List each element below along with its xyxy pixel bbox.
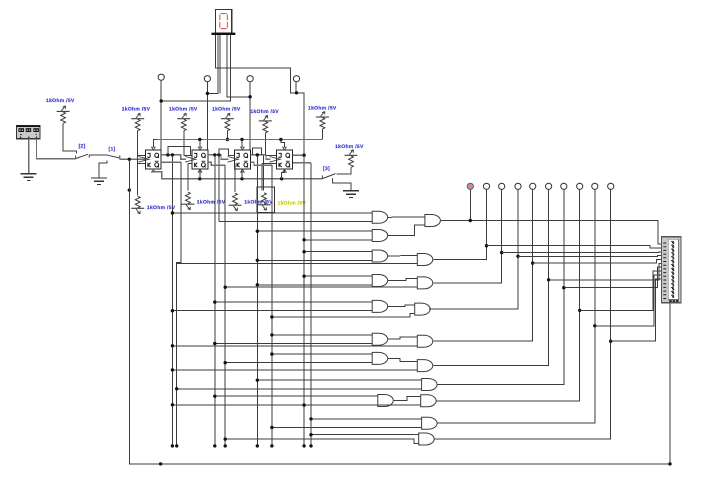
wire Q2 tap down to gate G1 input B	[218, 155, 220, 222]
junction bottom bus	[159, 462, 162, 465]
connector terminal T2	[247, 76, 253, 82]
pull-up resistor R6	[345, 150, 358, 168]
junction I input 1	[309, 417, 312, 420]
junction bus Q1bar end	[175, 444, 178, 447]
wire S2 to S1	[89, 154, 107, 156]
AND gate U15	[417, 254, 433, 266]
wire R1 to J1 K1	[137, 131, 139, 196]
junction G1 input A	[171, 211, 174, 214]
pull-up resistor R1	[131, 113, 144, 131]
probe terminal P1 active	[467, 183, 473, 189]
junction G7 input B	[224, 361, 227, 364]
junction C input 2	[224, 286, 227, 289]
junction J input 2 branch	[224, 437, 227, 440]
junction display tap a	[295, 91, 298, 94]
ground switch S3	[343, 191, 359, 198]
wire output i to display pin 9	[595, 275, 662, 326]
wire output g riser	[438, 189, 564, 384]
wire output c to display pin 3	[502, 251, 662, 254]
probe terminal P4	[515, 183, 521, 189]
wire H input 2	[304, 404, 421, 406]
wire S1 ground throw	[99, 160, 107, 178]
AND gate U23	[419, 433, 435, 445]
svg-text:1kOhm /5V: 1kOhm /5V	[335, 144, 364, 150]
wire output e to display pin 5	[533, 260, 662, 264]
junction P9	[593, 324, 596, 327]
junction bus Q4bar end	[309, 444, 312, 447]
JK flip-flop U4	[228, 147, 251, 172]
wire G6 input B	[215, 343, 372, 345]
AND gate U19	[417, 360, 433, 372]
wire vertical bus Q3bar	[271, 165, 273, 446]
switch S3	[322, 174, 335, 182]
wire display lead b to node Q2	[207, 35, 218, 93]
svg-text:1kOhm /5V: 1kOhm /5V	[278, 200, 307, 206]
wire display lead d to node Q3	[227, 35, 250, 97]
AND gate U11	[372, 333, 388, 345]
probe terminal P9	[592, 183, 598, 189]
junction bus Q3bar end	[270, 444, 273, 447]
junction Q2 bus	[213, 153, 216, 156]
junction G2 input B	[302, 238, 305, 241]
ground clock	[21, 174, 37, 181]
svg-text:1kOhm /5V: 1kOhm /5V	[308, 105, 337, 111]
svg-text:1kOhm /5V: 1kOhm /5V	[46, 98, 75, 104]
wire G3 input B	[257, 259, 372, 261]
wire J input 1	[311, 434, 419, 436]
wire display lead a to node Q4	[216, 35, 297, 93]
junction G8 input B	[171, 403, 174, 406]
wire display lead c	[219, 35, 221, 93]
pull-up resistor R5	[316, 111, 329, 129]
probe terminal P2	[483, 183, 489, 189]
svg-text:[2]: [2]	[79, 143, 86, 149]
junction display tap e	[160, 99, 163, 102]
wire G4 input A	[304, 275, 372, 277]
wire output b to display pin 2	[487, 246, 662, 248]
junction Q1 bus	[171, 153, 174, 156]
wire G2 input B	[304, 239, 372, 241]
junction clear rail FF4	[280, 177, 283, 180]
wire output a to display pin 1	[441, 221, 662, 245]
junction G2 input A	[256, 230, 259, 233]
svg-text:1kOhm /5V: 1kOhm /5V	[197, 199, 226, 205]
AND gate U10	[372, 300, 388, 312]
wire FF4 preset pin	[281, 140, 285, 151]
wire G8 input B	[172, 404, 377, 406]
wire G8 out to H in1	[394, 397, 421, 401]
junction P3	[500, 251, 503, 254]
junction P1	[469, 219, 472, 222]
wire R2 to J2	[184, 131, 192, 156]
wire Q2 to FF3 clock	[208, 155, 229, 159]
wire J4 tie to R10	[263, 155, 265, 190]
wire vertical bus Q2bar	[224, 165, 226, 446]
wire G4 input B	[257, 284, 372, 286]
junction display tap b	[206, 92, 209, 95]
wire F input 2	[172, 369, 417, 371]
wire FF1 preset pin	[153, 140, 161, 151]
wire output c riser	[433, 189, 501, 283]
junction G4 input B	[256, 283, 259, 286]
svg-text:1kOhm /5V: 1kOhm /5V	[169, 106, 198, 112]
wire I input 2	[272, 427, 422, 429]
wire G1 input A	[172, 212, 372, 214]
svg-text:1kOhm /5V: 1kOhm /5V	[122, 106, 151, 112]
wire FF2 clear pin	[199, 169, 201, 179]
wire vertical bus Q3	[256, 155, 258, 446]
probe terminal P3	[499, 183, 505, 189]
AND gate U22	[422, 417, 438, 429]
junction clear rail FF3	[240, 177, 243, 180]
svg-text:1kOhm /5V: 1kOhm /5V	[250, 109, 279, 115]
JK flip-flop U5	[270, 147, 293, 172]
wire Q4 out	[293, 154, 304, 156]
wire terminal P1 stem	[469, 189, 471, 220]
wire G5 out to D in1	[388, 305, 415, 307]
wire vertical bus Q1	[171, 155, 173, 446]
wire output h riser	[437, 189, 580, 400]
AND gate U21	[421, 395, 437, 407]
wire R0 to switch S2 throw	[63, 123, 77, 153]
junction Q1 J2 feed	[166, 153, 169, 156]
junction Q2 tap	[217, 153, 220, 156]
junction R3 rail	[226, 138, 229, 141]
junction P5	[531, 261, 534, 264]
wire output f riser	[433, 189, 548, 365]
wire C input 2	[225, 286, 417, 288]
wire clock output to switch S2	[37, 139, 76, 159]
wire Q4bar out	[293, 162, 311, 164]
wire B input 2	[177, 263, 418, 265]
wire E input 2	[172, 345, 417, 347]
subcircuit box around R10	[257, 187, 275, 212]
AND gate U20	[422, 379, 438, 391]
svg-text:[3]: [3]	[323, 166, 330, 172]
decoded display U24	[662, 237, 682, 303]
wire preset rail	[158, 139, 323, 141]
wire G2 input A	[257, 230, 372, 232]
pull-up resistor R3	[221, 113, 234, 131]
wire output j to display pin 10	[611, 279, 662, 341]
AND gate U7	[372, 230, 388, 242]
wire output b riser	[433, 189, 486, 259]
wire output j riser	[435, 189, 611, 439]
seven-segment display U1	[212, 10, 236, 34]
junction Q3 bus	[256, 153, 259, 156]
junction P2	[485, 244, 488, 247]
wire terminal T1 stem	[206, 82, 208, 155]
svg-text:1kOhm /5V: 1kOhm /5V	[212, 106, 241, 112]
AND gate U8	[372, 250, 388, 262]
wire G3 out to B in1	[388, 254, 417, 257]
junction I input 2	[270, 426, 273, 429]
probe terminal P10	[608, 183, 614, 189]
pull-up resistor R4	[259, 115, 272, 133]
junction clear rail FF2	[198, 177, 201, 180]
junction F input 2	[171, 368, 174, 371]
junction H input 2	[302, 403, 305, 406]
wire output h to display pin 8	[580, 271, 662, 310]
wire G input 1	[257, 379, 421, 381]
wire Q1 to J2	[168, 146, 191, 155]
wire vertical bus Q1bar	[177, 162, 181, 446]
clock generator XFG1	[17, 126, 41, 139]
connector terminal T0	[158, 74, 164, 80]
wire Q3bar out	[250, 162, 272, 165]
wire to J1	[138, 154, 146, 156]
AND gate U14	[425, 215, 441, 227]
junction G4 input A	[302, 275, 305, 278]
AND gate U18	[417, 335, 433, 347]
wire vertical bus Q4	[303, 155, 305, 446]
wire output d to display pin 4	[518, 255, 662, 258]
wire G7 input B	[225, 362, 372, 364]
junction P10	[609, 340, 612, 343]
wire Q2bar out	[208, 162, 225, 165]
wire I input 1	[311, 418, 422, 420]
AND gate U17	[415, 303, 431, 315]
junction clock bus	[128, 158, 131, 161]
wire K3 to R9	[234, 164, 236, 192]
pull-up resistor R2	[177, 113, 190, 131]
connector terminal T3	[293, 76, 299, 82]
junction P7	[562, 286, 565, 289]
junction E input 2	[171, 344, 174, 347]
pull-down resistor R8	[181, 192, 194, 210]
wire G1 out to A in1	[388, 216, 425, 219]
switch S2	[76, 154, 90, 158]
AND gate U12	[372, 352, 388, 364]
switch S1	[108, 155, 120, 159]
junction bus Q1 end	[171, 444, 174, 447]
wire Q1bar out	[161, 161, 181, 163]
wire K4 to R10	[261, 164, 263, 191]
junction bus Q2bar end	[224, 444, 227, 447]
junction G input 2	[175, 387, 178, 390]
wire R6 to S3 throw	[337, 167, 352, 174]
wire Q1 to FF2 clock	[161, 155, 186, 159]
junction P8	[578, 309, 581, 312]
wire G6 out to E in1	[388, 337, 417, 339]
wire to K2	[188, 163, 192, 165]
wire G7 input A	[272, 353, 372, 355]
probe terminal P7	[561, 183, 567, 189]
wire terminal T0 stem	[160, 80, 162, 150]
AND gate U16	[417, 277, 433, 289]
junction G7 input A	[270, 352, 273, 355]
junction bus Q4 end	[302, 444, 305, 447]
wire gate J input 2	[225, 439, 419, 443]
junction J input 1	[309, 433, 312, 436]
wire terminal T2 stem	[249, 82, 251, 155]
probe terminal P5	[530, 183, 536, 189]
wire T3 tap down to Q4	[296, 93, 304, 155]
wire FF3 preset pin	[241, 140, 243, 151]
junction preset rail	[279, 138, 282, 141]
wire output f to display pin 6	[549, 263, 662, 279]
wire vertical bus Q2	[214, 155, 216, 446]
junction G8 input A	[213, 395, 216, 398]
svg-text:[1]: [1]	[109, 147, 116, 153]
ground switch S1	[91, 178, 107, 185]
wire G input 2	[177, 388, 422, 390]
junction G5 input B	[171, 309, 174, 312]
wire Q2 to J3	[219, 149, 235, 155]
JK flip-flop U3	[185, 147, 208, 172]
wire R3 to preset rail	[226, 131, 228, 140]
wire terminal T3 stem	[295, 82, 297, 93]
junction display tap d	[248, 95, 251, 98]
wire G5 input A	[215, 301, 372, 303]
wire K2 to R8	[187, 164, 189, 191]
wire G2 out to A in2	[388, 225, 425, 236]
junction preset rail	[240, 138, 243, 141]
junction G input 1	[256, 379, 259, 382]
junction P4	[516, 255, 519, 258]
pull-down resistor R7	[131, 196, 144, 214]
wire output d riser	[429, 189, 518, 309]
wire clear rail	[153, 169, 322, 179]
junction G6 input A	[270, 333, 273, 336]
wire S1 to FF1 clock	[120, 158, 147, 160]
junction Q4 bus	[302, 154, 305, 157]
wire to K1	[138, 163, 146, 165]
AND gate U6	[372, 211, 388, 223]
junction G3 input B	[256, 259, 259, 262]
wire output g to display pin 7	[564, 267, 662, 288]
connector terminal T1	[204, 76, 210, 82]
junction bus Q3 end	[256, 444, 259, 447]
probe terminal P8	[577, 183, 583, 189]
junction G6 input B	[213, 342, 216, 345]
junction G3 input A	[302, 250, 305, 253]
junction preset rail	[198, 138, 201, 141]
wire G5 input B	[172, 310, 372, 312]
wire FF2 preset pin	[199, 140, 201, 151]
wire display lead e to node Q1	[161, 35, 230, 101]
wire S3 to ground	[333, 181, 352, 190]
wire FF4 clear pin	[282, 169, 285, 179]
wire G7 out to F in1	[388, 358, 417, 361]
pull-down resistor R9	[229, 193, 242, 211]
pull-up resistor R0	[57, 106, 70, 124]
junction D input 2	[270, 315, 273, 318]
wire G6 input A	[272, 334, 372, 336]
wire clock ground leg	[28, 139, 30, 174]
svg-text:1kOhm /5V: 1kOhm /5V	[147, 205, 176, 211]
wire G8 input A	[215, 395, 378, 397]
wire R5 to preset rail	[321, 129, 323, 140]
junction left bus	[128, 188, 131, 191]
probe terminal P6	[546, 183, 552, 189]
JK flip-flop U2	[139, 147, 162, 172]
AND gate U9	[372, 275, 388, 287]
wire vertical bus Q4bar	[310, 163, 312, 446]
wire R4 to J4	[265, 133, 276, 156]
wire FF3 clear pin	[241, 169, 243, 179]
junction P6	[547, 278, 550, 281]
wire output e riser	[433, 189, 532, 341]
wire D input 2	[272, 313, 415, 317]
wire output i riser	[438, 189, 595, 423]
AND gate U13	[378, 395, 394, 407]
junction bottom bus right	[668, 462, 671, 465]
junction bus Q2 end	[213, 444, 216, 447]
wire G3 input A	[304, 251, 372, 253]
wire Q3 to FF4 clock	[250, 155, 270, 159]
wire G1 input B	[219, 221, 372, 223]
wire G4 out to C in1	[388, 279, 417, 281]
junction G5 input A	[213, 300, 216, 303]
wire Q3 to J4	[252, 148, 261, 155]
pull-down resistor R10	[258, 193, 271, 211]
wire bottom common bus	[129, 159, 670, 464]
wire to K4	[262, 163, 277, 165]
